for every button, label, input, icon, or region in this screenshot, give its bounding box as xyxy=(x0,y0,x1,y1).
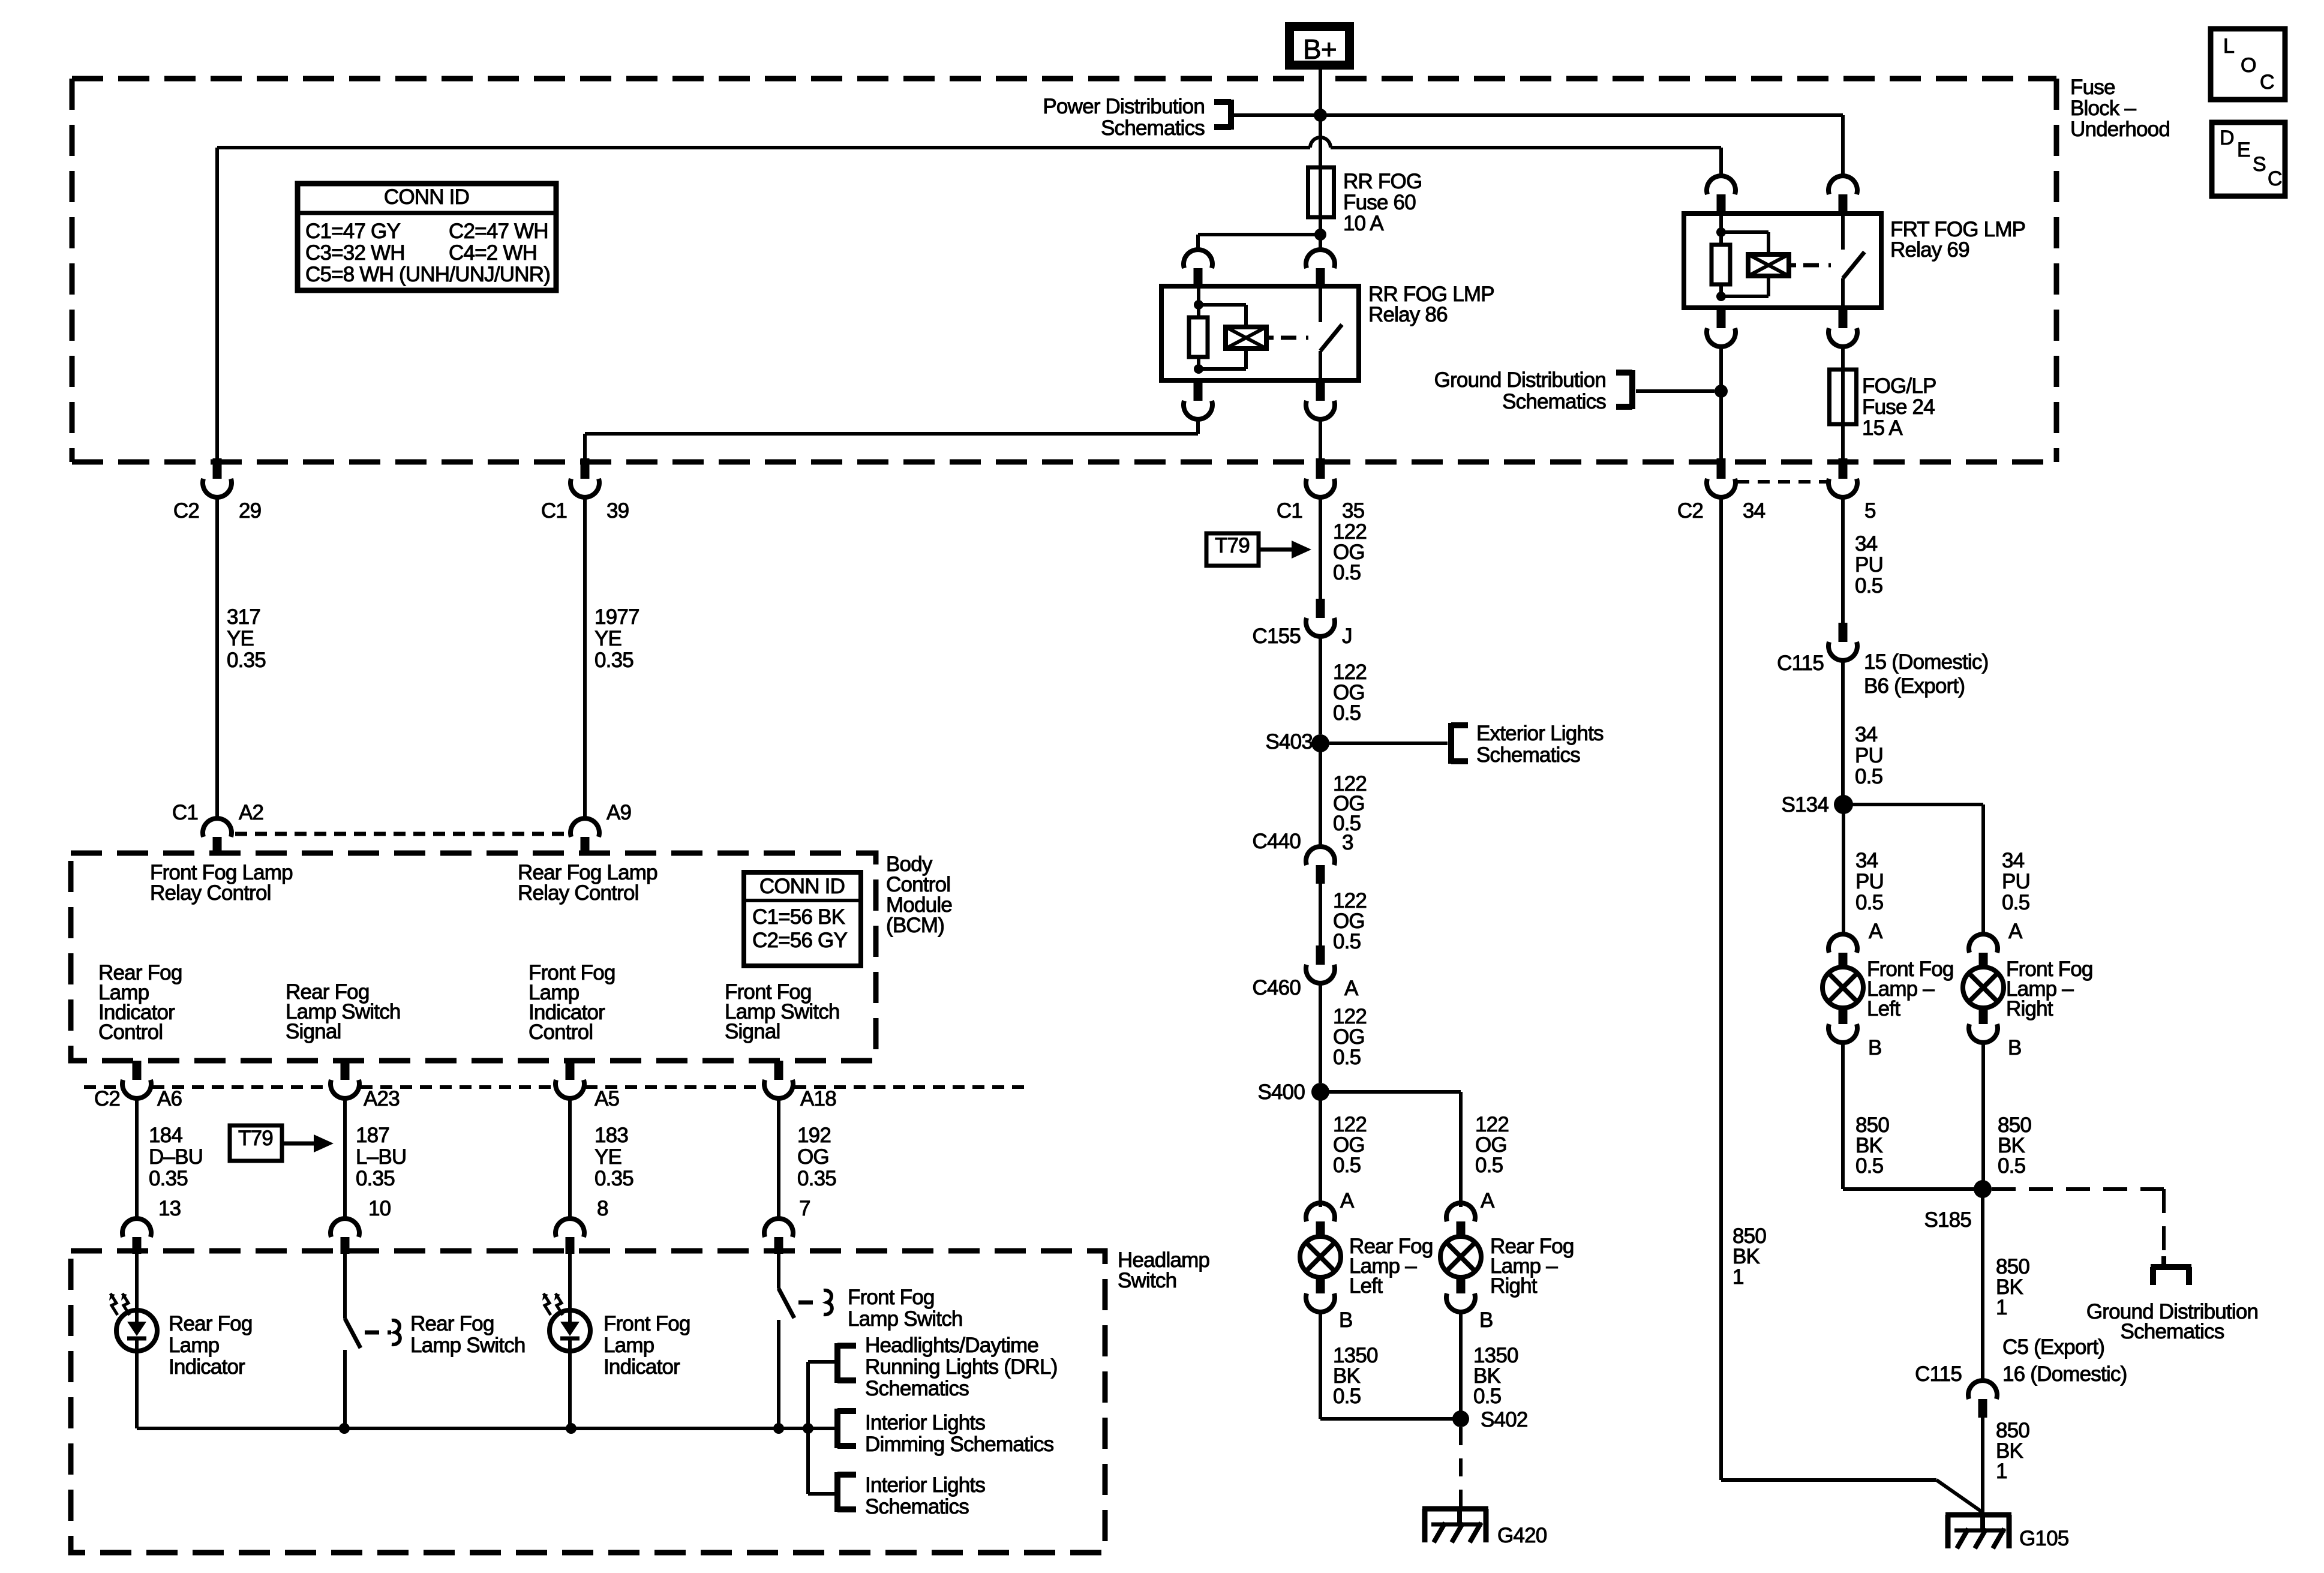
label Front Fog Lamp - Right xyxy=(2006,957,2093,1020)
svg-text:Schematics: Schematics xyxy=(1476,743,1580,767)
label Front Fog Lamp Indicator xyxy=(603,1312,690,1379)
svg-text:Fuse 60: Fuse 60 xyxy=(1343,191,1416,214)
Body Control Module dashed box xyxy=(71,853,876,1061)
svg-text:A: A xyxy=(1481,1189,1495,1212)
svg-text:Switch: Switch xyxy=(1118,1269,1176,1292)
wire S403 to C440 xyxy=(1319,743,1322,848)
connector C440 3 xyxy=(1253,830,1353,884)
bracket to Ground Distribution Schematics (right) xyxy=(2151,1256,2191,1285)
detent dashes front fog lamp switch xyxy=(798,1290,832,1314)
svg-text:YE: YE xyxy=(594,1145,621,1169)
pin RR relay switch terminal top xyxy=(1306,235,1335,287)
wire feed left drop to C2 29 xyxy=(215,148,219,462)
label pin 13 xyxy=(158,1197,181,1220)
svg-text:C: C xyxy=(2260,71,2274,94)
label wire 122 OG 0.5 (segment 3) xyxy=(1333,772,1367,835)
wire S185 to C115 lower xyxy=(1981,1189,1984,1382)
ground G420 xyxy=(1422,1509,1488,1542)
svg-text:Lamp: Lamp xyxy=(169,1334,219,1357)
svg-text:Schematics: Schematics xyxy=(2121,1320,2224,1343)
svg-text:S134: S134 xyxy=(1781,793,1828,816)
label wire 187 L-BU 0.35 xyxy=(356,1124,406,1190)
svg-text:0.5: 0.5 xyxy=(1333,1154,1361,1177)
label pin A left rear lamp xyxy=(1340,1189,1355,1212)
svg-text:A: A xyxy=(2008,920,2023,943)
svg-text:34: 34 xyxy=(1855,849,1878,872)
label wire 34 PU 0.5 (right front lamp) xyxy=(2002,849,2030,914)
label Front Fog Lamp - Left xyxy=(1867,957,1954,1020)
label wire 184 D-BU 0.35 xyxy=(149,1124,203,1190)
svg-text:0.5: 0.5 xyxy=(1855,891,1883,914)
label wire 850 BK 0.5 (left) xyxy=(1855,1113,1889,1178)
svg-text:0.35: 0.35 xyxy=(149,1167,188,1190)
wire right rear lamp to S402 xyxy=(1459,1311,1463,1419)
svg-text:C2: C2 xyxy=(173,499,199,523)
svg-text:187: 187 xyxy=(356,1124,389,1147)
svg-text:PU: PU xyxy=(2002,870,2030,893)
svg-text:0.5: 0.5 xyxy=(2002,891,2029,914)
wire right front lamp to S185 xyxy=(1981,1041,1985,1189)
label Ground Distribution Schematics (fuse block) xyxy=(1434,368,1607,413)
svg-text:S403: S403 xyxy=(1265,730,1313,754)
svg-text:C155: C155 xyxy=(1253,625,1301,648)
wire from junction down to RR FOG fuse xyxy=(1319,115,1322,235)
label wire 183 YE 0.35 xyxy=(594,1124,633,1190)
svg-text:16 (Domestic): 16 (Domestic) xyxy=(2002,1362,2127,1386)
wire LED1 to bus xyxy=(135,1351,139,1428)
label Body Control Module (BCM) xyxy=(886,852,952,937)
wire A18 to headlamp switch pin 7 xyxy=(777,1097,780,1220)
svg-text:A5: A5 xyxy=(594,1087,619,1110)
svg-text:Front Fog: Front Fog xyxy=(603,1312,690,1335)
pin FRT relay coil terminal bottom xyxy=(1707,308,1736,347)
connector BCM pin A5 xyxy=(556,1061,584,1098)
svg-text:Relay 69: Relay 69 xyxy=(1890,238,1969,262)
svg-text:0.35: 0.35 xyxy=(594,1167,633,1190)
svg-text:E: E xyxy=(2237,139,2250,161)
bracket to Interior Lights Dimming Schematics xyxy=(837,1409,856,1448)
label Rear Fog Lamp Switch Signal xyxy=(286,980,401,1043)
label wire 122 OG 0.5 (segment 4) xyxy=(1333,889,1367,953)
svg-text:S402: S402 xyxy=(1481,1408,1528,1431)
svg-text:C2: C2 xyxy=(94,1087,120,1110)
svg-text:0.5: 0.5 xyxy=(1333,1385,1361,1408)
node power distribution junction xyxy=(1314,109,1327,122)
pin RR relay coil terminal top xyxy=(1184,250,1212,287)
detent dashes rear fog lamp switch xyxy=(365,1320,400,1344)
svg-text:FOG/LP: FOG/LP xyxy=(1862,374,1936,398)
wire bracket spine xyxy=(808,1362,837,1494)
svg-text:5: 5 xyxy=(1864,499,1876,523)
svg-text:C: C xyxy=(2268,167,2282,190)
svg-text:CONN ID: CONN ID xyxy=(759,875,845,898)
svg-text:317: 317 xyxy=(227,605,260,629)
svg-text:Lamp: Lamp xyxy=(603,1334,654,1357)
svg-text:1977: 1977 xyxy=(594,605,639,629)
fuse block - underhood dashed box xyxy=(72,79,2056,462)
svg-text:O: O xyxy=(2241,54,2256,77)
svg-text:34: 34 xyxy=(1855,723,1878,746)
relay FRT FOG LMP Relay 69 xyxy=(1684,214,1881,308)
label Headlights/Daytime Running Lights (DRL) Schematics xyxy=(865,1334,1058,1400)
svg-text:RR FOG: RR FOG xyxy=(1343,170,1422,193)
svg-text:Signal: Signal xyxy=(725,1020,780,1043)
label wire 1977 YE 0.35 xyxy=(594,605,639,672)
svg-text:184: 184 xyxy=(149,1124,182,1147)
wire S400 branch to right rear fog lamp xyxy=(1320,1092,1461,1207)
label Rear Fog Lamp - Right xyxy=(1490,1235,1574,1298)
label FOG/LP Fuse 24 15 A xyxy=(1862,374,1936,440)
svg-text:Fuse 24: Fuse 24 xyxy=(1862,395,1935,419)
fuse RR FOG Fuse 60 10A xyxy=(1308,167,1334,217)
svg-text:10 A: 10 A xyxy=(1343,212,1384,235)
wire FRT relay switch bottom to fuse 24 xyxy=(1841,346,1845,462)
svg-text:Power Distribution: Power Distribution xyxy=(1043,95,1205,118)
label RR FOG Fuse 60 10 A xyxy=(1343,170,1422,235)
svg-text:Block –: Block – xyxy=(2070,97,2137,120)
wire S400 to left rear fog lamp xyxy=(1319,1092,1322,1207)
svg-text:C5 (Export): C5 (Export) xyxy=(2002,1335,2104,1359)
svg-text:34: 34 xyxy=(1855,532,1878,556)
label wire 122 OG 0.5 (right rear lamp) xyxy=(1475,1113,1509,1177)
svg-text:Rear Fog: Rear Fog xyxy=(410,1312,494,1335)
svg-text:Interior Lights: Interior Lights xyxy=(865,1411,985,1434)
svg-text:Fuse: Fuse xyxy=(2070,76,2115,99)
ground G105 xyxy=(1945,1515,2011,1548)
svg-text:Indicator: Indicator xyxy=(169,1355,245,1379)
svg-text:0.5: 0.5 xyxy=(1333,561,1361,584)
pin FRT relay switch terminal top xyxy=(1828,176,1857,214)
wire RR relay switch bottom to C1 35 xyxy=(1319,418,1322,462)
svg-text:0.5: 0.5 xyxy=(1855,574,1882,598)
svg-text:PU: PU xyxy=(1855,870,1884,893)
wire C1 39 to BCM A9 xyxy=(583,496,587,819)
connector headlamp switch pin 7 xyxy=(764,1218,793,1254)
svg-text:Lamp Switch: Lamp Switch xyxy=(848,1307,963,1331)
connector headlamp switch pin 8 xyxy=(556,1218,584,1254)
svg-text:CONN ID: CONN ID xyxy=(384,185,469,209)
dashed wire S402 to G420 xyxy=(1459,1427,1463,1509)
node bus junction at rear fog switch xyxy=(339,1423,350,1434)
T79 reference box with arrow (middle) xyxy=(1206,533,1311,566)
wire RR relay coil bottom to C1 39 xyxy=(585,418,1198,462)
lamp Rear Fog Lamp - Right xyxy=(1440,1203,1481,1312)
node fuse output junction xyxy=(1314,229,1326,241)
svg-text:15 (Domestic): 15 (Domestic) xyxy=(1864,650,1988,674)
svg-text:29: 29 xyxy=(239,499,261,523)
svg-text:0.5: 0.5 xyxy=(1333,1046,1361,1069)
svg-text:PU: PU xyxy=(1855,553,1883,577)
svg-text:S: S xyxy=(2253,153,2266,176)
wire C115 lower to G105 xyxy=(1981,1418,1984,1515)
label pin 7 xyxy=(799,1197,810,1220)
wire power distribution feed y192 xyxy=(1233,113,1843,117)
svg-text:YE: YE xyxy=(227,627,254,650)
wire FRT relay coil bottom to C2 34 xyxy=(1719,346,1723,462)
svg-text:C1: C1 xyxy=(1277,499,1302,523)
label Front Fog Lamp Relay Control xyxy=(150,861,293,905)
label pin 10 xyxy=(368,1197,391,1220)
svg-text:34: 34 xyxy=(1743,499,1765,523)
label Fuse Block - Underhood xyxy=(2070,76,2170,141)
svg-text:Left: Left xyxy=(1867,997,1900,1020)
svg-text:0.5: 0.5 xyxy=(1998,1154,2025,1178)
label pin A right rear lamp xyxy=(1481,1189,1495,1212)
svg-text:A: A xyxy=(1344,977,1359,1000)
connector BCM pin A9 xyxy=(571,801,631,854)
label pin A right front lamp xyxy=(2008,920,2023,943)
svg-text:Underhood: Underhood xyxy=(2070,118,2170,141)
label Power Distribution Schematics xyxy=(1043,95,1205,140)
label Rear Fog Lamp Relay Control xyxy=(518,861,657,905)
wire A6 to headlamp switch pin 13 xyxy=(135,1097,139,1220)
label wire 122 OG 0.5 (segment 2) xyxy=(1333,661,1367,725)
svg-text:C1=56 BK: C1=56 BK xyxy=(752,905,845,929)
connector headlamp switch pin 13 xyxy=(122,1218,151,1254)
indicator LED Front Fog Lamp Indicator xyxy=(542,1254,590,1351)
lamp Rear Fog Lamp - Left xyxy=(1300,1203,1341,1312)
label C5 Export 16 Domestic xyxy=(2002,1335,2127,1386)
svg-text:3: 3 xyxy=(1342,831,1353,854)
wire feed corner to FRT relay coil top xyxy=(1719,148,1723,177)
DESC box xyxy=(2212,122,2285,196)
wire C2 34 long ground wire to G105 xyxy=(1721,496,1983,1512)
label G105 xyxy=(2019,1527,2068,1550)
wire headlamp switch common bus xyxy=(137,1427,834,1430)
svg-text:(BCM): (BCM) xyxy=(886,914,944,937)
node ground distribution junction xyxy=(1715,385,1728,398)
label pin A left front lamp xyxy=(1869,920,1883,943)
svg-text:B+: B+ xyxy=(1303,34,1337,65)
svg-text:B: B xyxy=(2008,1036,2022,1059)
fuse FOG/LP Fuse 24 15A xyxy=(1830,370,1857,424)
label Rear Fog Lamp - Left xyxy=(1349,1235,1433,1298)
label wire 1350 BK 0.5 (left) xyxy=(1333,1344,1378,1408)
wire S403 to exterior lights bracket xyxy=(1329,742,1448,745)
svg-text:183: 183 xyxy=(594,1124,628,1147)
dashed connector link C2 34 to 5 xyxy=(1737,480,1828,484)
svg-text:T79: T79 xyxy=(238,1127,273,1150)
svg-text:35: 35 xyxy=(1342,499,1364,523)
wire A5 to headlamp switch pin 8 xyxy=(568,1097,572,1220)
splice S400 xyxy=(1257,1080,1329,1104)
svg-text:10: 10 xyxy=(368,1197,391,1220)
label wire 34 PU 0.5 (segment 1) xyxy=(1855,532,1883,598)
svg-text:Exterior Lights: Exterior Lights xyxy=(1476,722,1604,745)
label A18 xyxy=(800,1087,836,1110)
T79 reference box with arrow xyxy=(230,1125,334,1161)
bracket to Exterior Lights Schematics xyxy=(1451,723,1468,764)
label wire 850 BK 1 (above G105) xyxy=(1996,1419,2029,1483)
label A5 xyxy=(594,1087,619,1110)
label Front Fog Lamp Switch xyxy=(848,1286,963,1331)
svg-text:Rear Fog: Rear Fog xyxy=(169,1312,253,1335)
splice S185 xyxy=(1924,1180,1992,1232)
svg-text:C115: C115 xyxy=(1915,1362,1962,1386)
svg-text:T79: T79 xyxy=(1215,534,1250,557)
svg-text:Interior Lights: Interior Lights xyxy=(865,1473,985,1497)
bracket to Ground Distribution Schematics (fuse block) xyxy=(1616,370,1715,409)
wire C1 35 to C155 xyxy=(1319,496,1322,599)
label wire 317 YE 0.35 xyxy=(227,605,266,672)
svg-text:Dimming Schematics: Dimming Schematics xyxy=(865,1433,1054,1456)
svg-text:Right: Right xyxy=(1490,1274,1538,1298)
svg-text:Relay Control: Relay Control xyxy=(518,881,639,905)
pin RR relay switch terminal bottom xyxy=(1306,380,1335,419)
svg-text:OG: OG xyxy=(797,1145,829,1169)
label Rear Fog Lamp Indicator xyxy=(169,1312,253,1379)
svg-text:Front Fog: Front Fog xyxy=(848,1286,935,1309)
svg-text:B: B xyxy=(1479,1308,1493,1332)
svg-text:0.5: 0.5 xyxy=(1333,701,1361,725)
label Interior Lights Schematics xyxy=(865,1473,985,1518)
connector C2 34 at fuse block exit xyxy=(1677,458,1765,523)
label Exterior Lights Schematics xyxy=(1476,722,1604,767)
svg-text:0.5: 0.5 xyxy=(1855,1154,1883,1178)
lamp Front Fog Lamp - Left xyxy=(1822,934,1863,1043)
svg-text:Ground Distribution: Ground Distribution xyxy=(1434,368,1606,392)
svg-text:Schematics: Schematics xyxy=(865,1377,969,1400)
label pin B right front lamp xyxy=(2008,1036,2022,1059)
switch Front Fog Lamp Switch xyxy=(779,1254,794,1428)
lamp Front Fog Lamp - Right xyxy=(1963,934,2004,1043)
svg-text:A: A xyxy=(1340,1189,1355,1212)
svg-text:0.5: 0.5 xyxy=(1475,1154,1503,1177)
connector C1 39 at fuse block exit xyxy=(541,458,629,523)
svg-text:39: 39 xyxy=(606,499,629,523)
connector C155 J xyxy=(1253,599,1352,648)
svg-text:G420: G420 xyxy=(1497,1524,1547,1547)
label wire 1350 BK 0.5 (right) xyxy=(1473,1344,1518,1408)
svg-text:192: 192 xyxy=(797,1124,831,1147)
splice S403 xyxy=(1265,730,1329,754)
svg-text:Relay Control: Relay Control xyxy=(150,881,271,905)
svg-text:Signal: Signal xyxy=(286,1020,341,1043)
connector C1 35 at fuse block exit xyxy=(1277,458,1365,523)
connector BCM pin A6 xyxy=(94,1061,151,1110)
label Front Fog Lamp Switch Signal xyxy=(725,980,840,1043)
label Ground Distribution Schematics (right) xyxy=(2086,1300,2258,1343)
svg-text:A9: A9 xyxy=(606,801,631,824)
label Rear Fog Lamp Switch xyxy=(410,1312,526,1357)
bracket to Power Distribution Schematics xyxy=(1214,100,1231,130)
wire B+ down to power junction xyxy=(1319,70,1322,115)
CONN ID table (BCM) xyxy=(744,872,861,966)
label Front Fog Lamp Indicator Control xyxy=(529,961,615,1044)
label RR FOG LMP Relay 86 xyxy=(1368,283,1494,326)
label wire 122 OG 0.5 (left rear lamp) xyxy=(1333,1113,1367,1177)
dashed connector link BCM bottom pins xyxy=(84,1085,1027,1089)
connector C115 lower xyxy=(1915,1362,1997,1418)
svg-text:A23: A23 xyxy=(364,1087,400,1110)
label wire 34 PU 0.5 (left front lamp) xyxy=(1855,849,1884,914)
svg-text:Right: Right xyxy=(2006,997,2053,1020)
label A6 xyxy=(157,1087,182,1110)
svg-text:J: J xyxy=(1342,625,1352,648)
node bus junction at bracket spine xyxy=(803,1423,813,1434)
wire left front lamp to S185 xyxy=(1843,1041,1983,1189)
svg-text:0.35: 0.35 xyxy=(227,649,266,672)
svg-text:B6 (Export): B6 (Export) xyxy=(1864,674,1965,698)
indicator LED Rear Fog Lamp Indicator xyxy=(109,1254,157,1351)
svg-text:G105: G105 xyxy=(2019,1527,2068,1550)
wire power corner to FRT relay switch top xyxy=(1841,115,1845,177)
svg-text:Schematics: Schematics xyxy=(1101,116,1205,140)
svg-text:C4=2 WH: C4=2 WH xyxy=(449,241,537,265)
wire C2 29 to BCM A2 xyxy=(215,496,219,819)
label wire 850 BK 0.5 (right) xyxy=(1998,1113,2031,1178)
wire C460 to S400 xyxy=(1319,982,1322,1083)
CONN ID table (fuse block) xyxy=(298,184,556,290)
label pin B right rear lamp xyxy=(1479,1308,1493,1332)
svg-text:A2: A2 xyxy=(239,801,263,824)
svg-text:Control: Control xyxy=(98,1020,163,1044)
svg-text:1: 1 xyxy=(1733,1265,1744,1289)
svg-text:Schematics: Schematics xyxy=(1502,390,1606,413)
dashed wire S185 to ground distribution bracket xyxy=(1992,1189,2164,1256)
label wire 850 BK 1 (above C115) xyxy=(1996,1255,2029,1319)
wire C115 to S134 xyxy=(1841,659,1845,795)
wire LED2 to bus xyxy=(568,1351,572,1428)
svg-text:PU: PU xyxy=(1855,744,1883,767)
label Rear Fog Lamp Indicator Control xyxy=(98,961,182,1044)
pin RR relay coil terminal bottom xyxy=(1184,380,1212,419)
label pin B left rear lamp xyxy=(1339,1308,1353,1332)
svg-text:C3=32 WH: C3=32 WH xyxy=(305,241,405,265)
svg-text:L: L xyxy=(2223,35,2234,58)
svg-text:C5=8 WH (UNH/UNJ/UNR): C5=8 WH (UNH/UNJ/UNR) xyxy=(305,263,550,286)
svg-text:C460: C460 xyxy=(1253,976,1301,999)
connector 5 at fuse block exit xyxy=(1828,458,1876,523)
svg-text:1: 1 xyxy=(1996,1460,2007,1483)
svg-text:0.35: 0.35 xyxy=(356,1167,395,1190)
connector C2 29 at fuse block exit xyxy=(173,458,262,523)
svg-text:C2=56 GY: C2=56 GY xyxy=(752,929,847,952)
svg-text:C115: C115 xyxy=(1777,652,1824,675)
connector C115 15 Domestic B6 Export xyxy=(1777,623,1988,698)
connector BCM pin A2 xyxy=(172,801,263,854)
wire 5 to C115 xyxy=(1841,496,1845,623)
svg-text:Indicator: Indicator xyxy=(603,1355,680,1379)
LOC box xyxy=(2211,29,2285,100)
svg-text:1: 1 xyxy=(1996,1296,2007,1319)
svg-text:C1: C1 xyxy=(172,801,198,824)
svg-text:Running Lights (DRL): Running Lights (DRL) xyxy=(865,1355,1058,1379)
svg-text:15 A: 15 A xyxy=(1862,416,1903,440)
label wire 850 BK 1 (left long) xyxy=(1733,1224,1766,1289)
label wire 122 OG 0.5 (segment 1) xyxy=(1333,520,1367,584)
svg-text:YE: YE xyxy=(594,627,621,650)
bracket to Interior Lights Schematics xyxy=(837,1472,856,1512)
wire left rear lamp to S402 xyxy=(1320,1311,1461,1419)
wire S134 branch to right front fog lamp xyxy=(1843,804,1983,935)
svg-text:C1=47 GY: C1=47 GY xyxy=(305,220,400,243)
svg-text:S185: S185 xyxy=(1924,1208,1971,1232)
switch Rear Fog Lamp Switch xyxy=(345,1254,361,1428)
svg-text:L–BU: L–BU xyxy=(356,1145,406,1169)
svg-text:A6: A6 xyxy=(157,1087,182,1110)
label Headlamp Switch xyxy=(1118,1248,1209,1292)
Headlamp Switch dashed box xyxy=(71,1251,1105,1553)
svg-text:0.35: 0.35 xyxy=(797,1167,836,1190)
svg-text:13: 13 xyxy=(158,1197,181,1220)
svg-text:Control: Control xyxy=(529,1020,593,1044)
svg-text:B: B xyxy=(1868,1036,1882,1059)
svg-text:C2=47 WH: C2=47 WH xyxy=(449,220,548,243)
node bus junction at front fog switch xyxy=(773,1423,784,1434)
label pin 8 xyxy=(597,1197,608,1220)
label wire 122 OG 0.5 (segment 5) xyxy=(1333,1005,1367,1069)
